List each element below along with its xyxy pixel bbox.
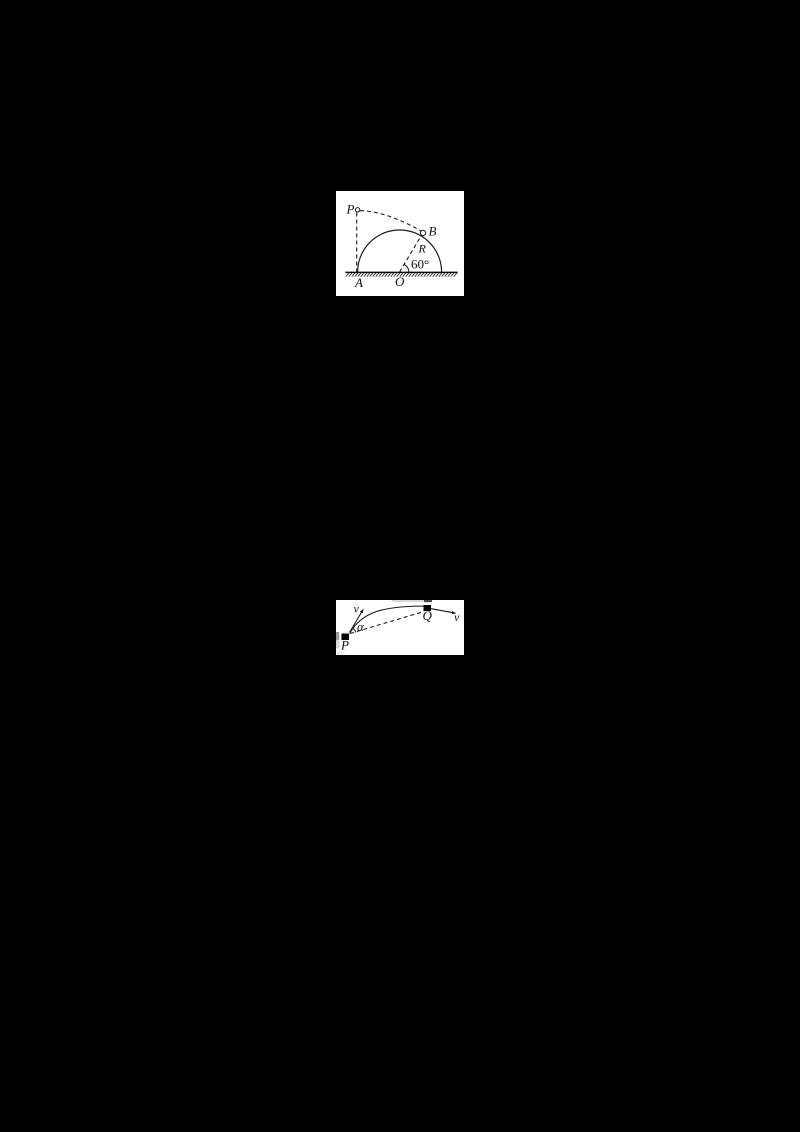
svg-text:R: R — [418, 242, 427, 256]
svg-text:P: P — [346, 202, 355, 217]
svg-text:O: O — [395, 274, 405, 289]
svg-text:Q: Q — [423, 608, 433, 623]
svg-text:v: v — [454, 610, 460, 624]
svg-text:P: P — [340, 638, 349, 653]
svg-text:B: B — [429, 224, 437, 239]
svg-text:A: A — [354, 275, 363, 290]
svg-text:60°: 60° — [411, 256, 429, 271]
svg-text:v: v — [354, 602, 360, 616]
svg-text:α: α — [357, 619, 365, 634]
